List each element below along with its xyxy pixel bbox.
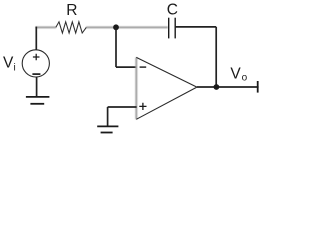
wire source to resistor vertical (35, 27, 37, 50)
op-amp plus sign (139, 103, 146, 110)
wire Vi top gray segment (36, 26, 57, 28)
wire feedback vertical (215, 27, 217, 87)
wire non-inverting down (107, 107, 109, 126)
voltage source plus (33, 54, 40, 61)
svg-text:V: V (230, 66, 241, 83)
voltage source Vi (22, 50, 49, 77)
op-amp U1 body slants (136, 57, 197, 119)
wire source to ground (36, 77, 38, 97)
wire to inverting input (116, 66, 137, 68)
ground (source) (26, 96, 50, 98)
wire output (197, 86, 259, 88)
svg-text:o: o (242, 73, 248, 84)
resistor R (56, 22, 87, 33)
node A junction dot (113, 24, 119, 30)
svg-text:C: C (167, 1, 178, 18)
op-amp U1 left edge (135, 57, 137, 119)
svg-text:i: i (14, 62, 16, 73)
capacitor C right plate (174, 18, 176, 39)
wire to non-inverting input (108, 106, 137, 108)
voltage source minus (32, 73, 40, 75)
svg-text:V: V (3, 54, 14, 71)
op-amp minus sign (140, 66, 147, 68)
node output dot (214, 84, 220, 90)
ground (op-amp +) (97, 125, 118, 127)
svg-text:R: R (66, 2, 77, 19)
wire node A down (115, 27, 117, 67)
terminal Vo tick (257, 81, 259, 93)
wire capacitor to corner (175, 26, 216, 28)
capacitor C left plate (168, 18, 170, 39)
wire resistor-to-capacitor gray segment (86, 26, 168, 28)
